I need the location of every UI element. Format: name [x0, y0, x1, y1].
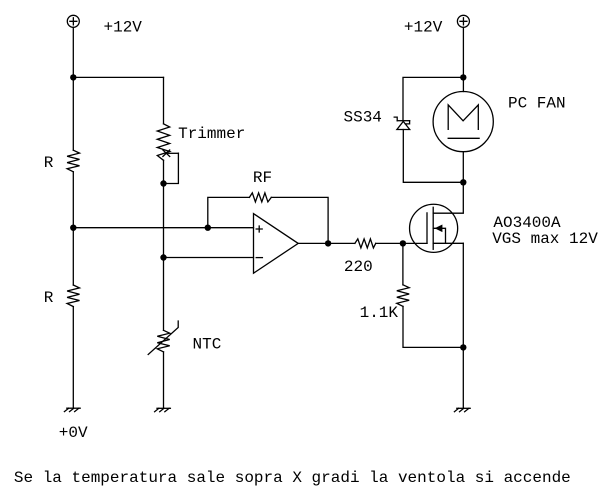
- svg-text:Trimmer: Trimmer: [178, 125, 245, 143]
- node B junction dot (divider midpoint): [70, 225, 76, 231]
- svg-text:+0V: +0V: [59, 424, 88, 442]
- ground middle: [155, 408, 171, 411]
- wire feedback right leg: [271, 197, 328, 243]
- NTC diagonal mark: [148, 321, 178, 355]
- svg-text:+12V: +12V: [104, 18, 143, 36]
- ground left: [64, 408, 80, 411]
- wire gate: [376, 242, 427, 244]
- wire left rail middle (R to node B): [72, 172, 74, 285]
- wire op-amp output: [298, 242, 355, 244]
- op-amp U1: [254, 214, 299, 274]
- wire left rail top (terminal to node A): [72, 27, 74, 150]
- svg-text:1.1K: 1.1K: [360, 304, 399, 322]
- svg-text:R: R: [44, 154, 54, 172]
- wire fan bottom to drain node: [462, 152, 464, 183]
- ground right: [454, 408, 470, 411]
- wire inverting input (node C to op-amp -): [164, 257, 254, 259]
- output junction dot: [325, 240, 331, 246]
- svg-text:220: 220: [344, 258, 373, 276]
- transistor Q1 AO3400A mosfet: [410, 204, 464, 252]
- wire diode top branch: [403, 77, 463, 120]
- svg-text:SS34: SS34: [344, 109, 382, 127]
- trimmer resistor body: [157, 124, 169, 161]
- node E junction dot (fan bottom): [460, 179, 466, 185]
- node A junction dot: [70, 74, 76, 80]
- wiper junction dot: [160, 180, 166, 186]
- wire source to ground: [462, 243, 464, 408]
- wire top-left horizontal (node A to trimmer top): [73, 76, 163, 78]
- wire feedback left leg: [208, 197, 250, 227]
- trimmer wiper loop wire: [164, 153, 179, 183]
- resistor R (upper): [67, 150, 79, 172]
- wire right rail top (terminal to fan): [462, 27, 464, 91]
- terminal right +12V supply: [457, 15, 469, 27]
- svg-text:RF: RF: [253, 169, 272, 187]
- resistor 1.1K: [397, 285, 409, 307]
- wire gate node to 1.1K: [402, 243, 404, 284]
- gate junction dot: [400, 240, 406, 246]
- svg-text:NTC: NTC: [193, 335, 222, 353]
- wire middle column top (to trimmer): [163, 77, 165, 123]
- svg-text:R: R: [44, 289, 54, 307]
- wire drain: [433, 182, 463, 213]
- wire 1.1K to source node: [403, 306, 463, 347]
- wire middle column (trimmer to NTC): [163, 160, 165, 330]
- svg-text:Se la temperatura sale sopra X: Se la temperatura sale sopra X gradi la …: [14, 469, 571, 487]
- feedback tap junction dot: [205, 225, 211, 231]
- wire diode bottom branch: [403, 130, 463, 183]
- svg-text:PC FAN: PC FAN: [508, 94, 566, 112]
- terminal left +12V supply: [67, 15, 79, 27]
- resistor RF: [249, 193, 271, 202]
- source junction dot: [460, 344, 466, 350]
- wire middle column bottom (NTC to ground): [163, 352, 165, 408]
- resistor 220: [355, 239, 376, 248]
- node D junction dot (fan top): [460, 74, 466, 80]
- NTC thermistor body: [157, 330, 169, 352]
- diode SS34 (schottky): [394, 117, 410, 129]
- motor PC FAN: [433, 92, 493, 152]
- svg-text:+12V: +12V: [404, 18, 443, 36]
- node C junction dot (inverting input net): [160, 254, 166, 260]
- wire left rail bottom (R to ground): [72, 307, 74, 409]
- wire non-inverting input (node B to op-amp +): [73, 227, 253, 229]
- resistor R (lower): [67, 285, 79, 307]
- svg-text:VGS max 12V: VGS max 12V: [492, 230, 598, 248]
- trimmer wiper arrow: [163, 150, 179, 157]
